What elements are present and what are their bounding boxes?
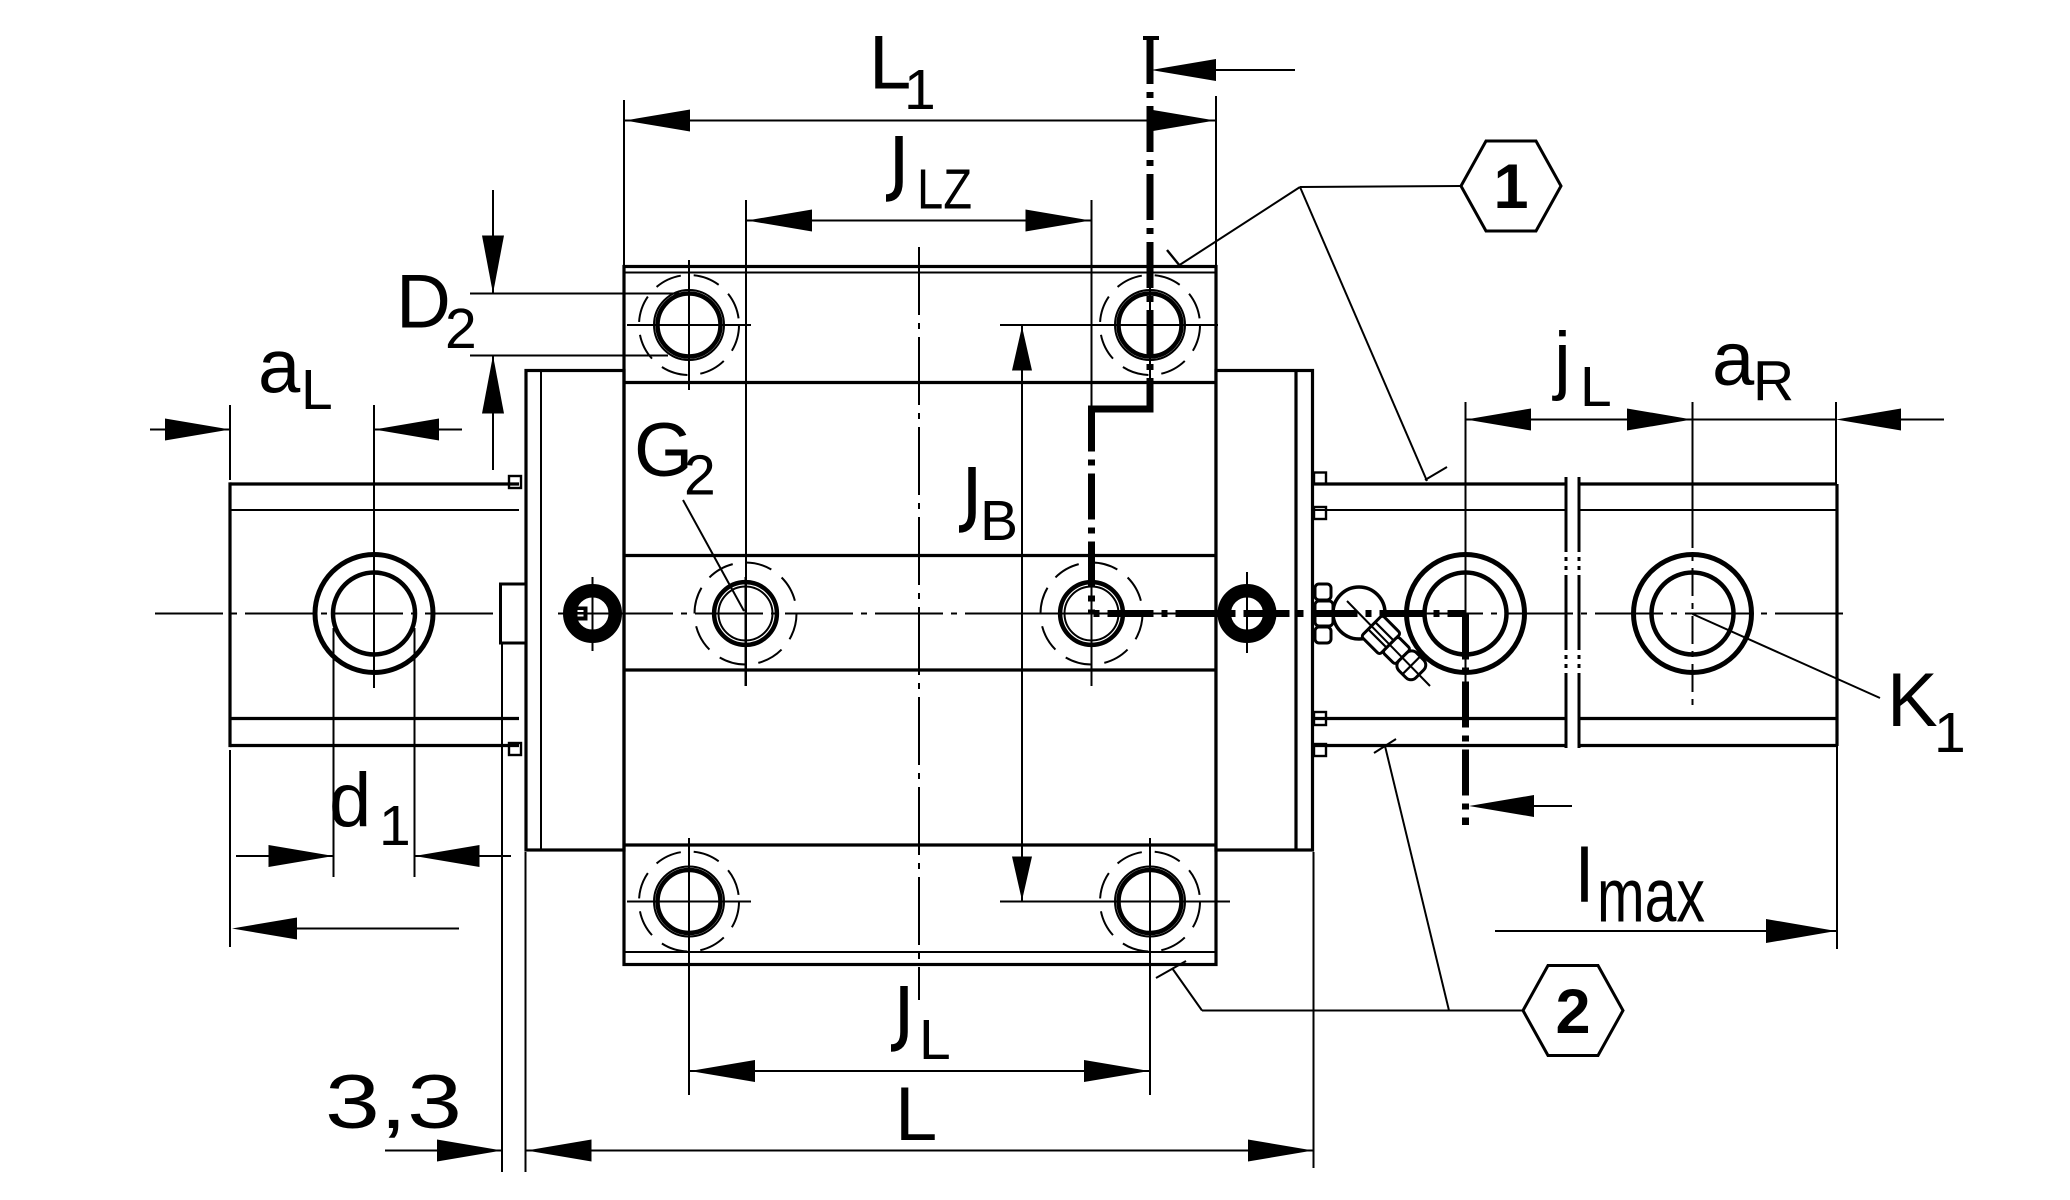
dimension JL <box>690 1070 1149 1072</box>
main horizontal centerline <box>155 613 1850 615</box>
svg-text:L: L <box>301 358 333 422</box>
dimension lmax <box>1495 930 1836 932</box>
svg-text:2: 2 <box>1555 977 1590 1047</box>
d1 extension lines <box>333 628 335 877</box>
rail end reference arrow <box>229 750 231 947</box>
mid-right threaded hole <box>1030 563 1155 687</box>
svg-text:a: a <box>258 325 301 410</box>
svg-text:3,3: 3,3 <box>325 1060 462 1145</box>
heavy line top tick <box>1143 36 1159 40</box>
left rail hole centerline <box>373 405 375 688</box>
left rail end tab bottom <box>509 743 521 755</box>
right rail hole 1 <box>1407 555 1525 673</box>
dimension aL <box>229 405 231 480</box>
dimension JB <box>1000 324 1218 326</box>
top-right carriage hole <box>1000 260 1218 390</box>
svg-text:a: a <box>1712 317 1755 402</box>
right rail segment 1 <box>1314 482 1566 485</box>
heavy line top arrow <box>1151 59 1216 81</box>
left rail mounting hole <box>315 555 433 673</box>
svg-text:L: L <box>1580 355 1612 419</box>
dimension D2 <box>470 293 680 295</box>
right end plate <box>1216 371 1313 851</box>
dimension aR <box>1835 402 1837 484</box>
svg-text:1: 1 <box>1493 152 1528 222</box>
heavy line bottom arrow <box>1469 795 1534 817</box>
mid-left threaded hole G2 <box>695 563 797 687</box>
svg-text:R: R <box>1753 349 1794 413</box>
left lube port crosshair <box>558 613 624 615</box>
svg-text:1: 1 <box>1934 701 1966 765</box>
rail joint edge lines <box>1565 477 1568 752</box>
svg-text:B: B <box>980 489 1018 553</box>
svg-text:l: l <box>1576 834 1593 919</box>
svg-text:j: j <box>1552 317 1571 402</box>
svg-text:LZ: LZ <box>917 158 972 222</box>
left end plate <box>526 371 624 851</box>
right lube port ring <box>1224 591 1270 637</box>
callout hexagon 1 <box>1461 141 1561 231</box>
dimension JLZ <box>745 200 747 686</box>
dimension 3,3 <box>501 643 503 1172</box>
left rail <box>230 482 519 485</box>
callout 2 leader <box>1202 1010 1523 1012</box>
svg-text:1: 1 <box>904 58 936 122</box>
bottom-right carriage hole <box>1000 838 1230 1095</box>
left rail end tab top <box>509 476 521 488</box>
svg-text:L: L <box>895 1072 937 1157</box>
top-left carriage hole <box>627 260 751 390</box>
G2 leader <box>683 500 744 611</box>
label JLZ <box>886 136 899 198</box>
carriage body <box>624 267 1216 965</box>
dimension L <box>1313 852 1315 1168</box>
right rail clamp tabs <box>1314 473 1326 485</box>
svg-text:D: D <box>396 260 451 345</box>
dimension jL <box>1466 419 1693 421</box>
svg-text:1: 1 <box>379 794 411 858</box>
right rail hole 2 <box>1634 555 1752 673</box>
svg-text:2: 2 <box>684 444 716 508</box>
label JL <box>891 986 904 1048</box>
dimension L1 <box>623 100 625 266</box>
callout 1 leader <box>1300 186 1461 187</box>
svg-text:max: max <box>1597 854 1705 939</box>
svg-text:2: 2 <box>445 297 477 361</box>
heavy section trace line <box>1088 38 1466 825</box>
carriage vertical centerline <box>918 247 920 1000</box>
left end plate mid tab <box>501 584 527 643</box>
svg-text:K: K <box>1887 658 1938 743</box>
label JB <box>959 467 972 529</box>
bottom-left carriage hole <box>627 838 751 1095</box>
K1 leader <box>1693 614 1881 698</box>
grease nipple <box>1315 584 1430 686</box>
left lube port ring <box>570 591 616 637</box>
dimension d1 <box>236 855 334 857</box>
svg-text:L: L <box>919 1008 951 1072</box>
callout hexagon 2 <box>1523 966 1623 1056</box>
right lube port crosshair <box>1246 572 1248 653</box>
right rail segment 2 <box>1579 482 1837 485</box>
svg-text:d: d <box>329 758 371 843</box>
